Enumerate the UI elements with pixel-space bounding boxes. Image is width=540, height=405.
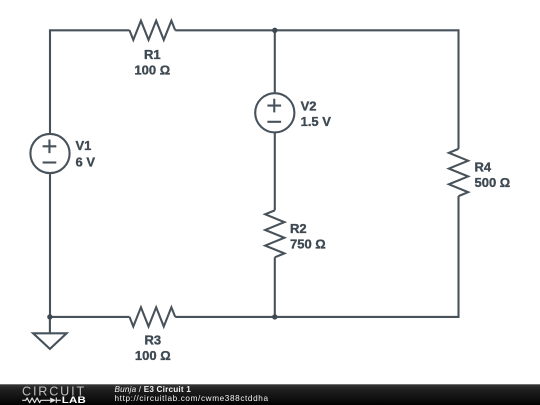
resistor R3 [130, 307, 176, 326]
svg-text:6 V: 6 V [76, 154, 96, 169]
wire V2 to R2 [274, 132, 276, 210]
svg-text:R4: R4 [475, 159, 492, 174]
svg-text:R3: R3 [144, 333, 161, 348]
svg-text:Bunja / E3 Circuit 1: Bunja / E3 Circuit 1 [115, 385, 192, 394]
wire R4 to bottom-right corner [175, 196, 458, 317]
svg-text:100 Ω: 100 Ω [134, 63, 170, 78]
node ground junction [47, 314, 52, 319]
wire R2 to bottom node [274, 257, 276, 317]
svg-text:500 Ω: 500 Ω [475, 175, 511, 190]
V1 plus sign [43, 140, 57, 154]
voltage source V1 [30, 134, 69, 173]
node bottom junction [272, 314, 277, 319]
svg-text:LAB: LAB [62, 396, 87, 405]
node top junction [272, 28, 277, 33]
footer bar [0, 384, 540, 405]
wire top-left to R1 [50, 30, 130, 134]
V1 minus sign [43, 161, 57, 163]
V2 plus sign [267, 99, 281, 113]
wire top node to V2 [274, 30, 276, 93]
svg-text:750 Ω: 750 Ω [290, 236, 326, 251]
resistor R2 [265, 210, 284, 257]
ground [33, 317, 67, 349]
logo resistor-diode glyph [22, 398, 61, 404]
voltage source V2 [255, 93, 294, 132]
svg-text:1.5 V: 1.5 V [301, 114, 332, 129]
svg-text:http://circuitlab.com/cwme388c: http://circuitlab.com/cwme388ctddha [115, 394, 269, 403]
svg-text:V2: V2 [301, 99, 317, 114]
V2 minus sign [267, 121, 281, 123]
wire V1 bottom to bottom wire [49, 173, 51, 317]
wire R3 to ground node [50, 316, 130, 318]
svg-text:R1: R1 [144, 47, 161, 62]
resistor R1 [130, 21, 176, 40]
svg-text:R2: R2 [290, 221, 307, 236]
svg-text:V1: V1 [76, 138, 92, 153]
svg-text:100 Ω: 100 Ω [135, 348, 171, 363]
resistor R4 [449, 149, 468, 196]
wire R1 to top-right corner [175, 30, 458, 149]
